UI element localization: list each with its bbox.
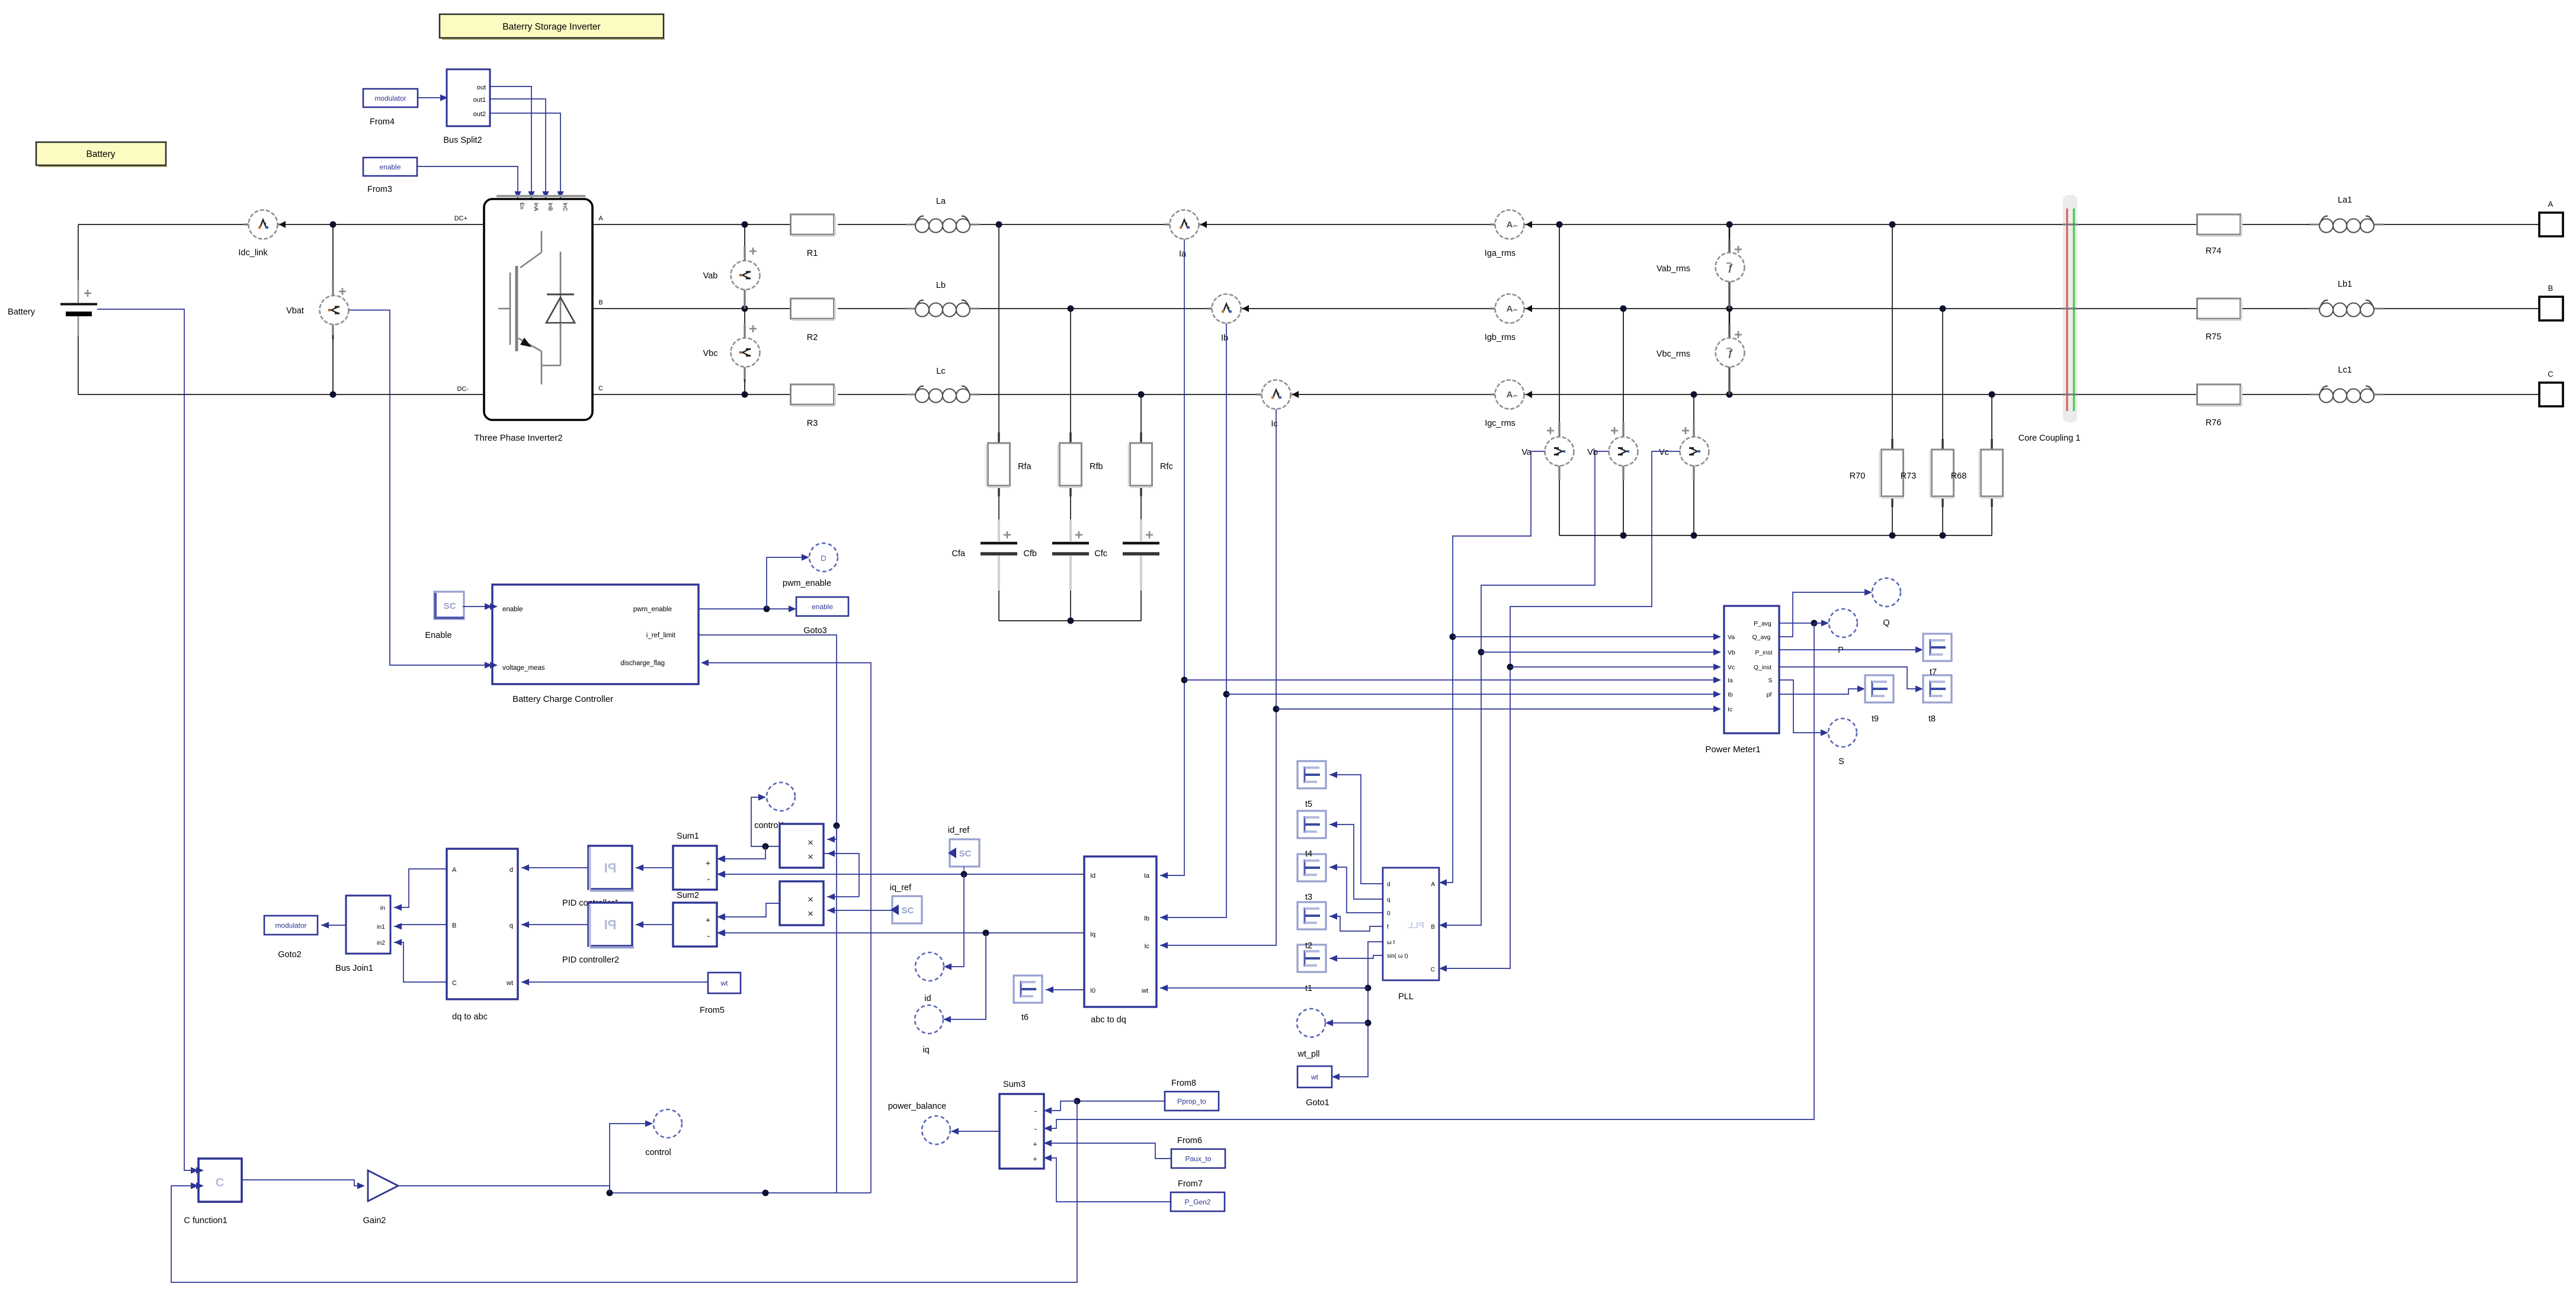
wire iq branch to iq bubble [943, 933, 986, 1023]
svg-text:Lb1: Lb1 [2338, 280, 2352, 289]
svg-text:From3: From3 [367, 185, 392, 194]
wire PLL wt down [1332, 942, 1383, 1080]
svg-text:From5: From5 [700, 1006, 725, 1015]
rms voltmeter Vbc_rms [1657, 309, 1745, 394]
node B R73 tap [1940, 306, 1946, 312]
wire Q_inst to t8 [1779, 667, 1923, 692]
from tag From5 wt [700, 973, 741, 1015]
svg-text:P_Gen2: P_Gen2 [1184, 1198, 1210, 1207]
wire iq_ref to multiply2 in2 [827, 907, 892, 913]
svg-text:pwm_enable: pwm_enable [633, 606, 672, 613]
label t8 [1928, 714, 1936, 724]
svg-text:Enable: Enable [425, 631, 451, 640]
svg-text:InB: InB [547, 203, 553, 211]
resistor Rfc [1129, 432, 1173, 496]
svg-text:B: B [452, 922, 456, 929]
wire I0 to t6 [1046, 986, 1084, 993]
svg-text:Cfc: Cfc [1094, 549, 1107, 559]
label t2 [1305, 941, 1312, 951]
svg-text:Sum3: Sum3 [1003, 1080, 1026, 1089]
wire out2 to InC [490, 113, 564, 199]
display t1 [1297, 945, 1326, 972]
svg-text:R1: R1 [807, 249, 818, 258]
wire filter star bus [999, 618, 1141, 624]
svg-text:Ic: Ic [1728, 706, 1732, 713]
wire PLL f to t2 [1329, 913, 1383, 931]
wire From5 to dq to abc wt [521, 978, 708, 985]
from tag From3 enable [363, 158, 417, 194]
node Va to power meter [1450, 633, 1722, 640]
ammeter Ic [1257, 380, 1299, 429]
svg-text:wt_pll: wt_pll [1297, 1050, 1319, 1059]
resistor Rfb [1058, 432, 1103, 496]
svg-text:Gain2: Gain2 [363, 1216, 386, 1225]
resistor Rfa [986, 432, 1032, 496]
wire P_avg down to Sum3 [1044, 623, 1814, 1132]
svg-text:Pprop_to: Pprop_to [1177, 1098, 1206, 1106]
svg-text:Ib: Ib [1144, 915, 1149, 922]
svg-text:SC: SC [902, 906, 914, 916]
node B Vb tap [1620, 306, 1627, 312]
svg-text:Iq: Iq [1090, 931, 1095, 938]
wire control to control bubble [610, 1120, 653, 1193]
wire multiply1 in2 from control net [824, 850, 859, 897]
svg-text:P_avg: P_avg [1754, 620, 1771, 627]
scope bubble power_balance [888, 1102, 950, 1144]
port B [2539, 284, 2563, 320]
svg-text:-: - [707, 874, 710, 884]
svg-text:Baterry Storage Inverter: Baterry Storage Inverter [502, 22, 600, 32]
wire dq-abc C to Bus Join in2 [394, 939, 447, 982]
wire id branch to id bubble [944, 874, 964, 970]
goto tag Goto3 enable [796, 597, 848, 636]
svg-text:PI: PI [604, 861, 617, 875]
svg-text:A: A [1507, 220, 1513, 230]
svg-text:in: in [380, 904, 385, 912]
label t1 [1305, 984, 1312, 993]
wire dq-abc A to Bus Join in [394, 869, 447, 911]
svg-text:Vbat: Vbat [286, 306, 304, 316]
ammeter Idc_link [238, 210, 286, 258]
wire dq-abc B to Bus Join in1 [394, 923, 447, 929]
svg-text:En: En [518, 203, 525, 210]
svg-text:t4: t4 [1305, 849, 1312, 859]
node Ic to power meter [1273, 705, 1722, 712]
capacitor Cfb [1023, 519, 1089, 591]
display t5 [1297, 761, 1326, 788]
resistor R1 [791, 214, 835, 258]
node B Vbc_rms tap [1726, 306, 1733, 312]
svg-text:R73: R73 [1901, 471, 1917, 481]
svg-text:Vab: Vab [703, 271, 718, 281]
rms ammeter Igc_rms [1485, 380, 1532, 429]
svg-text:Battery Charge Controller: Battery Charge Controller [512, 694, 613, 704]
sum block Sum3 [999, 1080, 1052, 1169]
svg-text:Ic: Ic [1271, 419, 1277, 429]
svg-text:id: id [924, 994, 931, 1003]
svg-text:Vb: Vb [1587, 448, 1598, 457]
gain block Gain2 [363, 1170, 398, 1225]
svg-text:B: B [1431, 924, 1435, 931]
ammeter Ia [1165, 210, 1207, 259]
svg-text:Bus Join1: Bus Join1 [335, 964, 373, 973]
svg-text:wt: wt [720, 979, 729, 987]
wire feedback Pprop to C function1 [171, 1101, 1077, 1282]
wire Bus Join1 to Goto2 [321, 922, 346, 928]
voltmeter Va [1521, 224, 1574, 535]
svg-text:q: q [1387, 897, 1390, 903]
node A R70 tap [1889, 222, 1896, 228]
inductor Lb [906, 281, 979, 317]
resistor R70 [1850, 439, 1904, 507]
svg-text:Battery: Battery [86, 149, 115, 159]
svg-text:Power Meter1: Power Meter1 [1705, 745, 1760, 755]
pin label B [598, 299, 603, 306]
svg-text:f: f [1387, 924, 1389, 931]
node i_ref_limit to multiply [834, 823, 840, 829]
svg-text:Core Coupling 1: Core Coupling 1 [2018, 434, 2081, 443]
svg-text:Lc1: Lc1 [2338, 365, 2351, 375]
svg-text:d: d [510, 867, 513, 874]
wire R73 branch [1942, 309, 1943, 535]
resistor R2 [791, 299, 835, 342]
svg-text:Igc_rms: Igc_rms [1485, 419, 1516, 428]
svg-text:t5: t5 [1305, 800, 1312, 809]
inductor Lc [906, 367, 979, 403]
svg-text:-: - [707, 931, 710, 941]
wire Ic meter to abc to dq [1160, 409, 1276, 949]
svg-text:InC: InC [562, 203, 568, 211]
svg-text:pwm_enable: pwm_enable [783, 579, 831, 588]
node B Vab bottom [742, 306, 748, 312]
sc from tag id_ref [948, 826, 979, 874]
wire PLL d to t5 [1329, 771, 1383, 884]
wire C function1 to Gain2 [242, 1180, 365, 1189]
resistor R73 [1901, 439, 1954, 507]
wire discharge_flag from control [701, 659, 871, 1193]
node A Rfa tap [996, 222, 1002, 228]
svg-text:power_balance: power_balance [888, 1102, 946, 1111]
wire P_inst to t7 [1779, 646, 1923, 653]
svg-text:Vab_rms: Vab_rms [1657, 264, 1690, 274]
scope bubble control [645, 1109, 682, 1157]
wire Vc output to PLL C and Power Meter [1439, 451, 1680, 972]
scope bubble Q [1872, 578, 1901, 628]
svg-text:Igb_rms: Igb_rms [1485, 333, 1516, 342]
svg-text:×: × [808, 851, 813, 862]
wire battery left vertical [78, 224, 79, 394]
block Bus Split2 [443, 69, 490, 145]
svg-text:C function1: C function1 [184, 1216, 227, 1225]
svg-text:Paux_to: Paux_to [1185, 1155, 1211, 1163]
node A Vab_rms tap [1726, 222, 1733, 228]
node C Vbc bottom [742, 392, 748, 398]
battery Battery [8, 280, 97, 336]
svg-text:From4: From4 [370, 117, 395, 127]
block Three Phase Inverter2 [484, 196, 592, 420]
from tag From7 P_Gen2 [1171, 1179, 1225, 1211]
svg-text:Lb: Lb [936, 281, 946, 290]
svg-text:B: B [2548, 284, 2553, 293]
svg-text:iq_ref: iq_ref [890, 883, 912, 893]
svg-text:Cfa: Cfa [951, 549, 966, 559]
svg-text:C: C [1431, 967, 1435, 973]
svg-text:A: A [1431, 881, 1435, 888]
node A Va tap [1556, 222, 1563, 228]
wire Sum3 to power_balance [951, 1128, 999, 1134]
svg-text:Vb: Vb [1728, 649, 1735, 656]
svg-text:From6: From6 [1177, 1136, 1202, 1146]
capacitor Cfc [1094, 519, 1159, 591]
svg-text:discharge_flag: discharge_flag [620, 660, 665, 667]
svg-text:×: × [808, 908, 813, 919]
svg-text:R68: R68 [1951, 471, 1967, 481]
node wt to abc to dq [1160, 984, 1372, 991]
svg-text:PLL: PLL [1408, 920, 1424, 931]
svg-text:R70: R70 [1850, 471, 1866, 481]
svg-text:q: q [510, 922, 513, 929]
wire Sum1 to PID controller1 [636, 864, 673, 871]
svg-text:modulator: modulator [275, 922, 306, 930]
node C Vc tap [1691, 392, 1697, 398]
svg-text:Rfa: Rfa [1018, 462, 1032, 471]
multiply block iq product [780, 881, 824, 925]
svg-text:A: A [598, 215, 603, 222]
svg-text:Cfb: Cfb [1023, 549, 1037, 559]
svg-text:From8: From8 [1171, 1079, 1196, 1088]
resistor R74 [2197, 214, 2242, 256]
svg-text:A: A [452, 867, 457, 874]
svg-text:Goto2: Goto2 [278, 950, 302, 960]
wire pwm_enable to Goto3 [699, 605, 796, 612]
block dq to abc [447, 849, 518, 1022]
wire multiply2 in1 jog [827, 893, 859, 900]
svg-text:×: × [808, 837, 813, 848]
svg-text:Ib: Ib [1728, 691, 1733, 698]
scope bubble iq [915, 1005, 943, 1055]
svg-text:Vc: Vc [1659, 448, 1669, 457]
wire P_Gen2 to Sum3 in4 [1044, 1154, 1171, 1202]
svg-text:La1: La1 [2338, 195, 2352, 205]
svg-text:d: d [1387, 881, 1390, 888]
svg-text:t2: t2 [1305, 941, 1312, 951]
display t4 [1297, 811, 1326, 838]
svg-text:+: + [1033, 1140, 1037, 1148]
pin label DC- [457, 386, 469, 393]
wire R68 branch [1991, 394, 1992, 535]
svg-text:PLL: PLL [1398, 992, 1414, 1002]
wire Vb output to PLL B and Power Meter [1439, 451, 1609, 929]
svg-text:-: - [1034, 1124, 1037, 1133]
wire id line from abc to dq to Sum1 [717, 871, 1084, 877]
svg-text:voltage_meas: voltage_meas [502, 665, 545, 672]
svg-text:B: B [598, 299, 603, 306]
svg-text:sin( ω t): sin( ω t) [1387, 953, 1408, 960]
inductor Lb1 [2310, 280, 2383, 317]
wire battery output to C function1 in1 [97, 309, 198, 1174]
svg-text:P: P [1838, 646, 1844, 655]
svg-text:InA: InA [533, 203, 539, 211]
voltmeter Vb [1587, 309, 1638, 535]
svg-text:S: S [1838, 757, 1844, 766]
svg-text:DC+: DC+ [454, 215, 467, 222]
inductor La1 [2310, 195, 2383, 233]
wire out to InA [490, 86, 535, 199]
svg-text:R74: R74 [2206, 246, 2222, 256]
wire Paux_to to Sum3 in3 [1044, 1140, 1171, 1159]
svg-text:Ia: Ia [1179, 249, 1187, 259]
svg-text:C: C [598, 385, 603, 392]
node Ib to power meter [1223, 691, 1722, 697]
wire i_ref_limit down [699, 635, 837, 1193]
svg-text:From7: From7 [1178, 1179, 1203, 1189]
block Battery Charge Controller [490, 585, 699, 704]
wire measurement ground bus [1559, 532, 1992, 539]
svg-text:Ia: Ia [1144, 872, 1150, 880]
label t5 [1305, 800, 1312, 809]
svg-text:Rfc: Rfc [1160, 462, 1173, 471]
svg-text:iq: iq [922, 1045, 929, 1055]
scope bubble control1 [754, 782, 795, 830]
voltmeter Vbat [286, 224, 348, 394]
svg-text:Lc: Lc [936, 367, 945, 376]
svg-text:+: + [706, 858, 710, 868]
svg-text:enable: enable [502, 606, 523, 613]
svg-text:R3: R3 [807, 419, 818, 428]
svg-text:PI: PI [604, 917, 617, 932]
wire Q_avg to Q bubble [1779, 589, 1872, 637]
label t4 [1305, 849, 1312, 859]
svg-text:Battery: Battery [8, 307, 36, 317]
wire phase C line [592, 394, 2539, 395]
svg-text:C: C [452, 980, 457, 987]
svg-text:out2: out2 [473, 111, 486, 118]
pin label C [598, 385, 603, 392]
from tag From6 Paux_to [1171, 1136, 1225, 1168]
block abc to dq [1084, 856, 1156, 1025]
voltmeter Vbc [703, 309, 760, 394]
wire Va output to PLL A and Power Meter [1439, 451, 1545, 886]
wire Rfc branch [1140, 394, 1142, 621]
node Ia to power meter [1181, 676, 1722, 683]
svg-text:R2: R2 [807, 333, 818, 342]
sum block Sum1 [673, 832, 725, 890]
wire PID2 to dq to abc q [521, 921, 588, 928]
sc source Enable [425, 592, 464, 640]
sum block Sum2 [673, 891, 725, 947]
note Baterry Storage Inverter [440, 14, 665, 39]
wire DC- rail [78, 392, 484, 398]
svg-text:out: out [477, 84, 486, 91]
from tag From4 modulator [363, 89, 418, 127]
pin label DC+ [454, 215, 467, 222]
resistor R75 [2197, 299, 2242, 342]
wire PLL q to t4 [1329, 821, 1383, 899]
wire multiply1 output to Sum1 and control1 [717, 794, 780, 862]
node Vc to power meter [1507, 663, 1722, 670]
wire phase A line [592, 224, 2539, 225]
wire DC+ rail left segment [78, 224, 484, 225]
wire Rfa branch [998, 224, 999, 621]
wire Ib meter to abc to dq [1160, 323, 1226, 921]
node DC+ Vbat tap [330, 222, 337, 228]
display t3 [1297, 854, 1326, 881]
igbt and diode icon inside inverter [498, 231, 575, 384]
svg-text:C: C [2548, 370, 2553, 378]
wire Enable to BCC [463, 603, 492, 609]
inductor Lc1 [2310, 365, 2383, 403]
resistor R76 [2197, 384, 2242, 428]
wire phase B line [592, 308, 2539, 309]
wire Gain2 output control line [398, 1186, 871, 1196]
display t9 [1865, 675, 1893, 724]
svg-text:t1: t1 [1305, 984, 1312, 993]
display t7 [1923, 634, 1952, 661]
wire pf to t9 [1779, 685, 1865, 694]
node Vb to power meter [1478, 649, 1722, 655]
voltmeter Vc [1659, 394, 1709, 535]
resistor R3 [791, 384, 835, 428]
svg-text:control: control [645, 1148, 671, 1157]
wire iq line from abc to dq to Sum2 [717, 929, 1084, 936]
svg-text:dq to abc: dq to abc [452, 1012, 488, 1022]
svg-text:La: La [936, 197, 946, 206]
svg-text:t9: t9 [1872, 714, 1879, 724]
note Battery [36, 142, 167, 166]
svg-text:Vbc: Vbc [703, 349, 718, 358]
multiply block control1 product [780, 824, 824, 868]
svg-text:A: A [1507, 304, 1513, 314]
svg-text:t3: t3 [1305, 893, 1312, 902]
scope bubble S [1828, 718, 1857, 766]
label t7 [1930, 668, 1937, 677]
display t8 [1923, 675, 1952, 702]
svg-text:Q_inst: Q_inst [1754, 664, 1771, 671]
inductor La [906, 197, 979, 233]
block Bus Join1 [335, 896, 390, 973]
ammeter Ib [1207, 294, 1249, 344]
svg-text:pf: pf [1767, 691, 1772, 698]
svg-text:Ic: Ic [1144, 943, 1149, 950]
port C [2539, 370, 2563, 406]
svg-text:Q: Q [1883, 618, 1889, 628]
svg-text:0: 0 [1387, 910, 1390, 917]
wire pwm_enable branch up [767, 554, 809, 609]
display t2 [1297, 902, 1326, 929]
svg-text:out1: out1 [473, 97, 486, 104]
svg-text:wt: wt [506, 980, 513, 987]
svg-text:t7: t7 [1930, 668, 1937, 677]
wire R70 branch [1892, 224, 1893, 535]
wire Vbat to voltage_meas [349, 310, 492, 669]
wire P_avg to P bubble [1779, 620, 1829, 626]
wire PID1 to dq to abc d [521, 864, 588, 871]
svg-text:enable: enable [812, 603, 833, 611]
node A Vab tap [742, 222, 748, 228]
rms ammeter Igb_rms [1485, 294, 1532, 343]
wire Sum2 to PID controller2 [636, 921, 673, 928]
pin label A [598, 215, 603, 222]
svg-text:Vc: Vc [1728, 664, 1735, 671]
svg-text:S: S [1768, 677, 1772, 684]
display t6 [1014, 976, 1042, 1022]
wire Pprop_to to Sum3 in1 [1044, 1098, 1165, 1114]
svg-text:P_inst: P_inst [1755, 649, 1772, 656]
svg-text:t8: t8 [1928, 714, 1936, 724]
rms ammeter Iga_rms [1485, 210, 1532, 259]
svg-text:Vbc_rms: Vbc_rms [1657, 349, 1690, 359]
wire out1 to InB [490, 99, 549, 199]
